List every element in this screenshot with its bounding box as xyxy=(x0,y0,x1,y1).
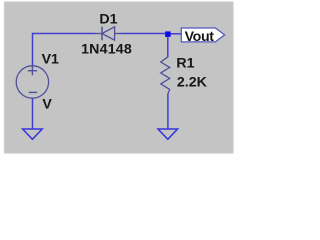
svg-text:Vout: Vout xyxy=(185,29,215,45)
svg-text:V1: V1 xyxy=(42,52,59,68)
wire from resistor R1 bottom to ground xyxy=(167,94,169,130)
svg-text:1N4148: 1N4148 xyxy=(81,42,132,58)
svg-text:2.2K: 2.2K xyxy=(177,74,208,90)
svg-text:R1: R1 xyxy=(176,55,194,71)
svg-text:V: V xyxy=(42,97,52,113)
voltage source V1 xyxy=(16,66,48,98)
wire from diode D1 to node junction xyxy=(121,33,165,35)
wire from node to Vout flag xyxy=(171,33,182,35)
svg-text:D1: D1 xyxy=(99,12,117,28)
wire from node down to resistor R1 xyxy=(167,37,169,58)
resistor R1 xyxy=(161,57,170,94)
diode D1 xyxy=(95,27,121,41)
net flag Vout xyxy=(181,28,224,45)
node junction dot xyxy=(165,31,171,37)
wire from V1 bottom to ground xyxy=(32,98,34,129)
ground below V1 xyxy=(23,129,43,139)
ground below R1 xyxy=(158,129,178,139)
wire from V1 top to diode D1 anode xyxy=(33,34,96,67)
